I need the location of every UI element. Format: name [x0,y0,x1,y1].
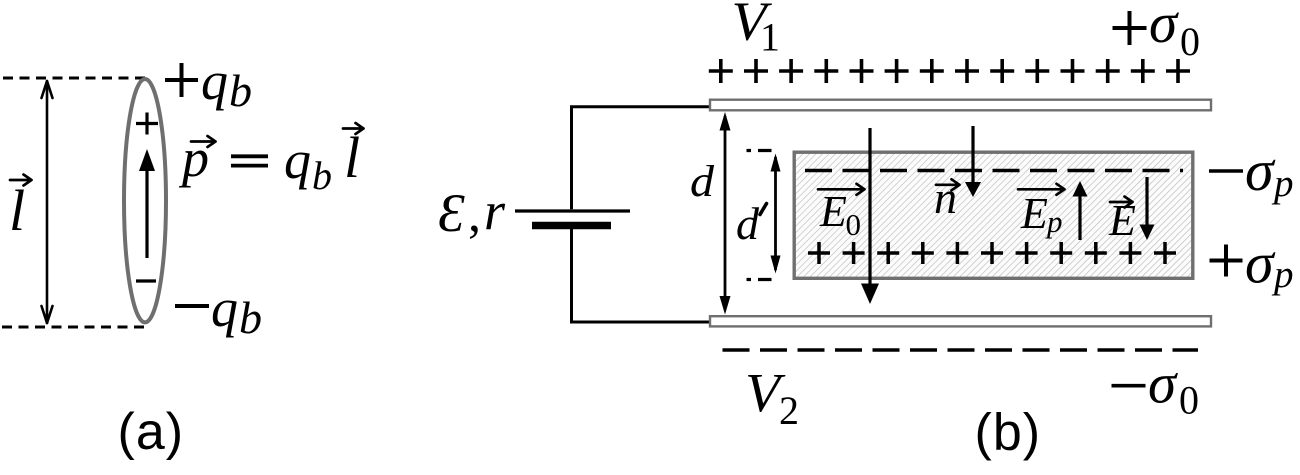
node minus charge inside dipole [136,279,156,282]
svg-text:E: E [1020,189,1048,238]
svg-text:p: p [1271,253,1294,296]
node plus charge inside dipole [136,113,158,135]
wire dimension arrow l (double-headed) [42,81,53,323]
node label -q_b [175,304,209,308]
svg-text:p: p [178,128,209,188]
wire dipole moment arrow (up) [145,168,148,258]
node dash-dot extension bottom of slab [747,278,772,281]
wire battery to top plate [572,107,710,210]
node dashed line below bottom plate (-sigma_0) [723,348,1199,351]
svg-text:q: q [201,51,228,111]
wire net field arrow E (down) [1145,177,1148,226]
node label +sigma_p [1210,245,1243,277]
node dash-dot extension top of slab [747,149,772,152]
svg-text:(a): (a) [118,403,185,461]
svg-text:Ɛ: Ɛ [438,183,465,243]
capacitor dipole ellipse (a) [124,79,166,322]
svg-text:σ: σ [1149,0,1179,55]
capacitor top plate V1 [710,100,1211,111]
svg-text:b: b [312,153,332,198]
node bottom dashed reference line (a) [2,326,148,329]
wire battery to bottom plate [572,229,710,322]
wire dimension arrow d (double-headed) [724,116,727,310]
svg-text:σ: σ [1245,138,1276,203]
node bound charge dashed line (-sigma_p) inside slab [805,169,1183,172]
svg-text:b: b [229,65,252,116]
node label -sigma_p [1209,169,1243,173]
node bound charge row (+sigma_p) inside slab [808,242,1176,264]
svg-text:E: E [819,187,847,236]
battery cell long plate (+) [515,209,630,212]
svg-text:2: 2 [779,388,799,433]
svg-text:d: d [690,157,715,206]
svg-text:p: p [1045,204,1063,239]
svg-text:b: b [239,292,262,343]
svg-text:0: 0 [846,207,862,242]
svg-text:l: l [9,178,25,243]
svg-text:0: 0 [1179,378,1199,423]
svg-text:0: 0 [1180,19,1200,64]
svg-text:l: l [344,125,360,190]
svg-text:σ: σ [1245,231,1276,296]
wire field arrow E0 (down, long) [868,128,871,286]
svg-text:d: d [736,198,760,249]
battery cell short plate (-) [532,222,611,230]
svg-text:,: , [468,186,481,243]
svg-text:q: q [211,278,238,338]
svg-text:p: p [1271,162,1294,205]
svg-text:(b): (b) [975,404,1042,462]
wire dimension arrow d-prime (double-headed) [774,157,777,270]
svg-text:q: q [284,130,311,190]
capacitor bottom plate V2 [710,316,1211,326]
node label +q_b [165,63,198,97]
wire normal arrow n (down) [971,126,974,183]
node label +sigma_0 top [1113,11,1147,45]
node label -sigma_0 bottom [1112,384,1146,388]
svg-text:1: 1 [760,14,780,59]
svg-text:r: r [484,181,506,241]
dielectric slab (hatched) [794,152,1193,278]
wire polarization arrow Ep (up) [1078,195,1081,240]
node top dashed reference line (a) [3,77,147,80]
node free charge row on top plate [709,59,1190,83]
svg-text:σ: σ [1148,353,1178,416]
